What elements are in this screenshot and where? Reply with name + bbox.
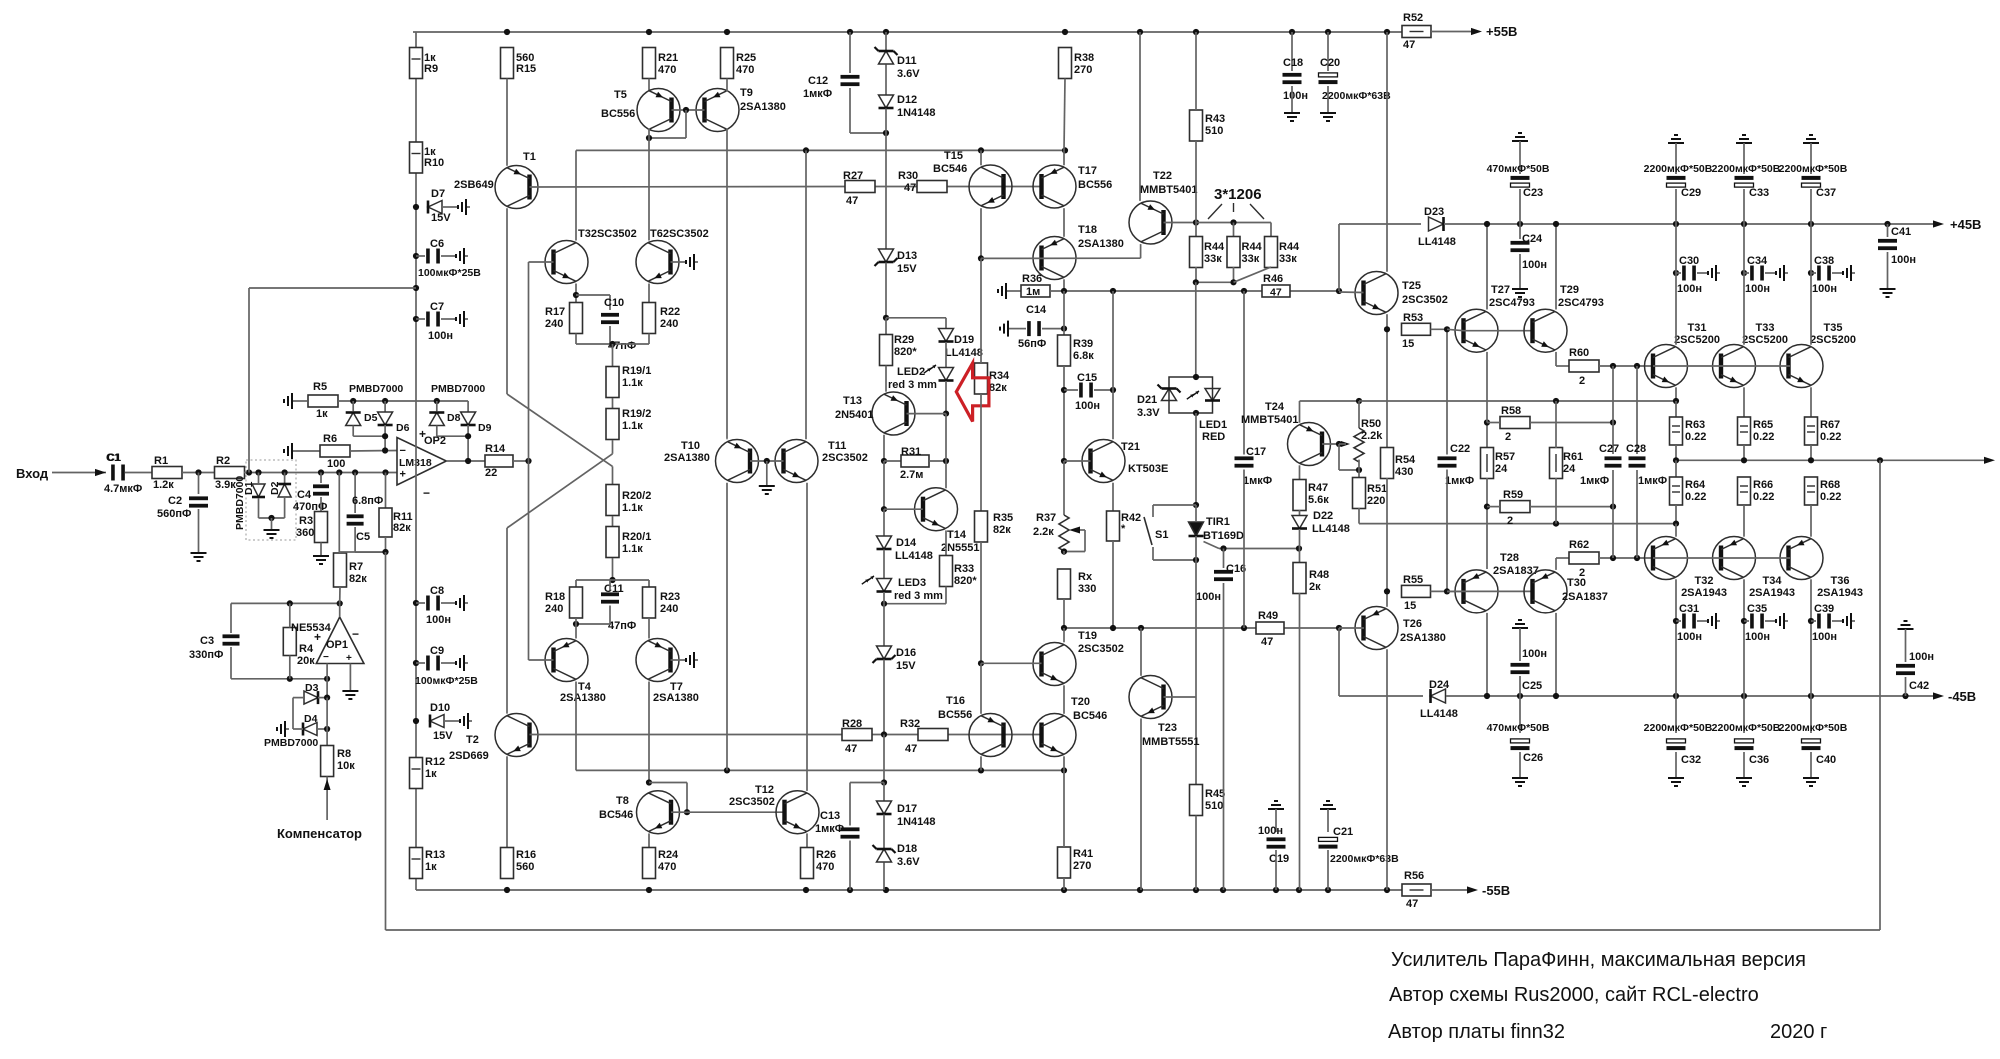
svg-text:82к: 82к (349, 573, 367, 585)
resistor R41 (1058, 847, 1071, 878)
wire T23 emitter to rail (1140, 719, 1142, 891)
wire to T2 collector (506, 528, 508, 714)
transistor T12 2SC3502 (776, 791, 819, 834)
transistor T1 2SB649 (495, 166, 538, 209)
wire rail-C26 (1519, 696, 1521, 733)
svg-text:R18: R18 (545, 591, 565, 603)
wire T21base-R37 (1063, 461, 1065, 515)
svg-text:47пФ: 47пФ (608, 620, 636, 632)
junction S1 top (1193, 502, 1199, 508)
svg-text:KT503E: KT503E (1128, 463, 1168, 475)
wire T3T4 base column (528, 262, 530, 660)
wire gnd-C14 (1012, 328, 1026, 330)
wire to R29 (885, 318, 887, 335)
resistor R58 (1500, 417, 1530, 429)
wire C22-T28 base (1446, 470, 1448, 592)
wire to R64 (1675, 460, 1677, 477)
wire D3 right (318, 697, 327, 699)
wire R4 bottom (289, 656, 291, 679)
ground C25 (1512, 620, 1528, 632)
svg-text:3.6V: 3.6V (897, 68, 920, 80)
svg-text:82к: 82к (393, 522, 411, 534)
junction output 1811 (1808, 457, 1814, 463)
svg-text:R19/1: R19/1 (622, 365, 651, 377)
svg-text:82к: 82к (993, 524, 1011, 536)
svg-text:T29: T29 (1560, 284, 1579, 296)
wire R44 bottom link (1196, 281, 1234, 283)
wire T23 base lead (1164, 696, 1197, 698)
diode D2 (278, 484, 291, 497)
wire base line to T15 T17 (947, 186, 1042, 188)
svg-text:2.2к: 2.2к (1033, 526, 1054, 538)
svg-text:C22: C22 (1450, 443, 1470, 455)
resistor R21 (643, 48, 656, 79)
wire C41-gnd (1887, 252, 1889, 285)
wire R48 down (1299, 593, 1301, 890)
diode D12 (879, 95, 894, 108)
svg-text:T32SC3502: T32SC3502 (578, 228, 637, 240)
wire feedback right (1879, 460, 1881, 930)
junction D4 (324, 726, 330, 732)
wire C1-R1 (125, 472, 152, 474)
wire Rx down (1063, 599, 1065, 628)
diode D11 zener (875, 47, 898, 64)
wire to D5 (352, 401, 354, 411)
svg-text:C4: C4 (297, 489, 312, 501)
wire D7-gnd (442, 206, 458, 208)
svg-text:1.1к: 1.1к (622, 543, 643, 555)
ground OP1 (342, 687, 358, 699)
svg-text:+: + (419, 427, 426, 441)
svg-text:D18: D18 (897, 843, 917, 855)
junction -55V D18 (883, 887, 889, 893)
svg-text:PMBD7000: PMBD7000 (349, 383, 403, 395)
svg-text:0.22: 0.22 (1685, 491, 1706, 503)
wire T4 collector down (575, 682, 577, 771)
junction T10T11 base (764, 458, 770, 464)
svg-text:0.22: 0.22 (1753, 431, 1774, 443)
junction +55V T25 (1384, 29, 1390, 35)
wire R54-R55 (1386, 478, 1388, 591)
junction T14 base (881, 506, 887, 512)
svg-text:D22: D22 (1313, 510, 1333, 522)
resistor R34 (975, 363, 988, 394)
wire C13 bottom (849, 841, 851, 891)
wire D12 down (885, 109, 887, 134)
wire D5D6 bottom (353, 435, 385, 437)
resistor R18 (570, 587, 583, 618)
wire to C13 node (883, 735, 885, 783)
junction T31em bus1 (1673, 398, 1679, 404)
wire to C39 (1811, 620, 1816, 622)
capacitor C36 (1735, 739, 1754, 750)
junction T25 base (1336, 288, 1342, 294)
wire feedback bottom (386, 929, 1881, 931)
resistor R29 (880, 335, 893, 366)
junction R31-T14coll (943, 458, 949, 464)
svg-text:C35: C35 (1747, 603, 1767, 615)
wire to R48 (1299, 549, 1301, 564)
wire T2 base line mid (872, 734, 918, 736)
wire OP1 noninv (349, 664, 351, 688)
junction output-D9 (465, 458, 471, 464)
junction R44 mid (1230, 219, 1236, 225)
svg-text:C37: C37 (1816, 187, 1836, 199)
wire wiper to column (1064, 551, 1085, 553)
wire stub (1063, 551, 1065, 555)
svg-text:D9: D9 (478, 422, 492, 434)
resistor R31 (901, 455, 929, 467)
svg-text:R44: R44 (1242, 241, 1263, 253)
wire y150 line b (806, 149, 981, 151)
wire T2 emitter to R16 (506, 756, 508, 847)
junction +45 T31 (1673, 221, 1679, 227)
wire T32 collector down (1675, 579, 1677, 696)
wire T15 emitter down (980, 208, 982, 258)
wire R18R23 top link (576, 579, 649, 581)
junction R14 to T3T4 base column (525, 458, 531, 464)
wire C31-gnd (1697, 620, 1708, 622)
svg-text:Rx: Rx (1078, 571, 1093, 583)
resistor R55 (1402, 585, 1431, 597)
wire T14 emitter to R33 (945, 530, 947, 555)
ground C24 (1512, 285, 1528, 297)
junction T10 collector (724, 767, 730, 773)
wire R57-T28em (1486, 478, 1488, 569)
svg-text:2200мкФ*50В: 2200мкФ*50В (1779, 163, 1848, 175)
junction busA T21coll (1110, 288, 1116, 294)
capacitor C2 (189, 496, 208, 507)
junction R61 top (1553, 398, 1559, 404)
svg-text:C9: C9 (430, 645, 444, 657)
wire gnd-R5 (296, 400, 307, 402)
svg-text:D13: D13 (897, 250, 917, 262)
ground C41 (1880, 285, 1896, 297)
junction D10 (413, 718, 419, 724)
wire R20/2 up (612, 466, 614, 484)
svg-text:LED2: LED2 (897, 366, 925, 378)
svg-text:C39: C39 (1814, 603, 1834, 615)
diode D23 (1429, 217, 1444, 231)
svg-text:T26: T26 (1403, 618, 1422, 630)
wire T5-T6 column (648, 138, 650, 241)
capacitor C5 (347, 514, 364, 525)
resistor R14 (485, 455, 513, 467)
wire T27-T29 base link (1464, 330, 1533, 332)
svg-text:R28: R28 (842, 718, 862, 730)
svg-text:R32: R32 (900, 718, 920, 730)
svg-text:2SC4793: 2SC4793 (1558, 297, 1604, 309)
transistor T33 2SC5200 (1713, 345, 1756, 388)
svg-text:R49: R49 (1258, 610, 1278, 622)
junction LED3 bottom (881, 601, 887, 607)
wire D6 to minus (384, 425, 386, 451)
transistor T11 2SC3502 (775, 440, 818, 483)
wire R15-T1 (506, 79, 508, 166)
junction +45 T35 (1808, 221, 1814, 227)
junction box top (1193, 374, 1199, 380)
svg-text:D2: D2 (269, 481, 281, 495)
transistor T18 2SA1380 (1033, 237, 1076, 280)
junction R29 D19 (883, 315, 889, 321)
resistor Rx (1058, 569, 1071, 599)
wire T5 mirror jog vert (685, 110, 687, 138)
transistor T20 BC546 (1033, 714, 1076, 757)
diode D5 (346, 413, 361, 426)
wire T13 collector down (883, 435, 885, 461)
wire to R58 (1487, 422, 1500, 424)
svg-text:1.1к: 1.1к (622, 377, 643, 389)
wire input to R7 (338, 473, 340, 553)
junction -45 T32 (1673, 693, 1679, 699)
junction +45 T27 (1484, 221, 1490, 227)
junction T15 collector (978, 147, 984, 153)
wire jog down (686, 783, 688, 813)
wire to C31 (1676, 620, 1681, 622)
svg-text:RED: RED (1202, 431, 1225, 443)
capacitor C8 (426, 596, 440, 611)
svg-text:47: 47 (846, 195, 858, 207)
svg-text:R25: R25 (736, 52, 756, 64)
wire T4 base lead (529, 659, 554, 661)
ground C8 (456, 595, 468, 611)
svg-text:R52: R52 (1403, 12, 1423, 24)
wire y770 line d (981, 769, 1064, 771)
svg-text:D12: D12 (897, 94, 917, 106)
svg-text:47: 47 (1270, 287, 1282, 299)
resistor R3 (315, 512, 328, 543)
wire busB b (1284, 627, 1339, 629)
svg-text:+: + (314, 630, 321, 644)
wire busB a (1064, 627, 1256, 629)
thyristor TIR1 BT169D (1189, 522, 1204, 536)
svg-text:T22: T22 (1153, 170, 1172, 182)
wire busA to +45 corner (1338, 224, 1340, 291)
wire C12-D11 link (850, 132, 886, 134)
wire T36 collector down (1810, 579, 1812, 696)
wire T28-T30 base link (1447, 590, 1533, 592)
wire C13 stub (850, 782, 884, 784)
svg-text:2SC3502: 2SC3502 (729, 796, 775, 808)
svg-text:270: 270 (1073, 860, 1091, 872)
svg-text:R31: R31 (901, 446, 921, 458)
svg-text:1N4148: 1N4148 (897, 107, 936, 119)
junction R18R23 top (609, 577, 615, 583)
svg-text:BC556: BC556 (1078, 179, 1112, 191)
wire R61 bottom lead (1555, 478, 1557, 524)
svg-text:510: 510 (1205, 125, 1223, 137)
junction R50 top (1356, 398, 1362, 404)
resistor R64 (1670, 477, 1683, 505)
capacitor C33 (1735, 176, 1754, 187)
resistor R48 (1293, 563, 1306, 594)
svg-text:R26: R26 (816, 849, 836, 861)
wire C33-rail (1743, 189, 1745, 224)
svg-text:15V: 15V (431, 212, 451, 224)
svg-text:2SC3502: 2SC3502 (1402, 294, 1448, 306)
wire T8 emitter (648, 833, 650, 847)
wire T22 collector down (1140, 244, 1142, 258)
resistor R65 (1738, 417, 1751, 445)
wire C27 col d (1612, 507, 1614, 558)
resistor R30 (917, 181, 947, 193)
resistor R44-1 33к (1190, 237, 1203, 268)
capacitor C18 (1283, 73, 1302, 84)
junction -55V C16 (1220, 887, 1226, 893)
arrow +55V (1471, 28, 1482, 35)
wire C30-gnd (1697, 272, 1708, 274)
LED3 sparkle (862, 576, 874, 584)
svg-text:R9: R9 (424, 63, 438, 75)
wire C10 top link (576, 294, 610, 296)
wire R6-OP2 (350, 450, 397, 453)
wire R7 top stub (339, 552, 341, 553)
capacitor C19 (1267, 837, 1286, 848)
wire +55V rail (413, 31, 1402, 33)
svg-text:2SA1837: 2SA1837 (1562, 591, 1608, 603)
resistor R59 (1500, 501, 1530, 513)
resistor R33 (940, 556, 953, 587)
svg-text:15: 15 (1404, 600, 1416, 612)
wire to C12 (849, 32, 851, 73)
junction -55V C21 (1325, 887, 1331, 893)
wire T25 emitter (1386, 314, 1388, 329)
wire output bus (1676, 459, 1985, 461)
ground C18 (1284, 109, 1300, 121)
wire to C4 (320, 473, 322, 484)
wire to gnd (271, 518, 273, 526)
wire y150 line c (981, 149, 1065, 151)
junction +55V R21 (646, 29, 652, 35)
svg-text:T10: T10 (681, 440, 700, 452)
ground C2 (191, 549, 207, 561)
junction box out (1193, 410, 1199, 416)
junction -55V R16 (504, 887, 510, 893)
junction D22-R48 (1296, 545, 1302, 551)
wire R33 down (945, 587, 947, 604)
wire to D17 (883, 783, 885, 801)
svg-text:C30: C30 (1679, 255, 1699, 267)
wire R68 down (1810, 505, 1812, 537)
svg-text:R21: R21 (658, 52, 678, 64)
svg-text:OP2: OP2 (424, 435, 446, 447)
marker red arrow (956, 363, 989, 421)
svg-text:LL4148: LL4148 (1312, 523, 1350, 535)
junction R53-C22 (1444, 326, 1450, 332)
ground C34 (1776, 265, 1788, 281)
wire C13 top lead (849, 783, 851, 826)
arrow -55V (1467, 886, 1478, 893)
svg-text:C25: C25 (1522, 680, 1542, 692)
svg-text:100н: 100н (1812, 283, 1837, 295)
ground C26 (1512, 774, 1528, 786)
svg-text:100н: 100н (1522, 648, 1547, 660)
wire R2-OP2+ (244, 472, 397, 474)
svg-text:100н: 100н (1258, 825, 1283, 837)
svg-text:2SA1380: 2SA1380 (560, 692, 606, 704)
ground C32 (1668, 774, 1684, 786)
svg-text:100мкФ*25В: 100мкФ*25В (415, 675, 478, 687)
resistor R62 (1569, 552, 1599, 564)
svg-text:2SC3502: 2SC3502 (1078, 643, 1124, 655)
svg-text:2200мкФ*50В: 2200мкФ*50В (1644, 722, 1713, 734)
svg-text:2к: 2к (1309, 581, 1321, 593)
ground C20 (1320, 109, 1336, 121)
svg-text:C1: C1 (107, 452, 121, 464)
wire to T32 emitter (1675, 524, 1677, 537)
wire R44 link to LED1 box (1195, 282, 1197, 377)
wire R11 down (385, 537, 387, 552)
wire C27 col c (1612, 470, 1614, 507)
svg-text:T27: T27 (1491, 284, 1510, 296)
svg-text:C33: C33 (1749, 187, 1769, 199)
potentiometer R50 2.2k (1354, 428, 1364, 462)
junction +55V R15 (504, 29, 510, 35)
junction R37 wiper (1061, 548, 1067, 554)
ground C38 (1843, 265, 1855, 281)
wire bias column (885, 133, 887, 249)
svg-text:47: 47 (905, 743, 917, 755)
svg-text:C19: C19 (1269, 853, 1289, 865)
resistor R5 (308, 395, 338, 407)
svg-text:R39: R39 (1073, 338, 1093, 350)
wire to R62 (1556, 557, 1569, 559)
ground C36 (1736, 774, 1752, 786)
wire to D6 (384, 401, 386, 412)
svg-text:C8: C8 (430, 585, 444, 597)
junction C14 (1061, 326, 1067, 332)
svg-text:T28: T28 (1500, 552, 1519, 564)
wire R39-T21 base (1063, 366, 1065, 461)
svg-text:2SC5200: 2SC5200 (1810, 334, 1856, 346)
svg-text:2SC5200: 2SC5200 (1674, 334, 1720, 346)
junction output 1880 (1877, 457, 1883, 463)
svg-text:R63: R63 (1685, 419, 1705, 431)
svg-text:D5: D5 (364, 412, 378, 424)
svg-text:100н: 100н (1677, 631, 1702, 643)
svg-text:47: 47 (904, 182, 916, 194)
wire T8-T12 base link (687, 811, 785, 813)
capacitor C26 (1511, 739, 1530, 750)
svg-text:R62: R62 (1569, 539, 1589, 551)
junction D11 D12 (883, 130, 889, 136)
junction C2 tap (195, 469, 201, 475)
resistor R17 (570, 303, 583, 334)
wire T8 mirror jog (649, 782, 687, 784)
wire T12 emitter (806, 833, 808, 847)
junction D1D2 gnd (268, 515, 274, 521)
junction R50 bottom (1356, 467, 1362, 473)
svg-text:820*: 820* (894, 346, 917, 358)
svg-text:LED3: LED3 (898, 577, 926, 589)
wire y770 line c (727, 769, 981, 771)
wire R53 right (1431, 328, 1448, 330)
junction D8 top (434, 398, 440, 404)
svg-text:+45В: +45В (1950, 217, 1981, 232)
junction feedback node (382, 549, 388, 555)
svg-text:D19: D19 (954, 334, 974, 346)
svg-text:R27: R27 (843, 170, 863, 182)
svg-text:R61: R61 (1563, 451, 1583, 463)
wire +45 rail a (1339, 223, 1421, 225)
capacitor C16 (1214, 570, 1233, 581)
resistor R38 (1059, 48, 1072, 79)
transistor T14 2N5551 (915, 488, 958, 531)
diode D14 (877, 536, 892, 549)
diode D3 (304, 691, 318, 704)
resistor R45 (1190, 785, 1203, 816)
svg-text:R54: R54 (1395, 454, 1416, 466)
